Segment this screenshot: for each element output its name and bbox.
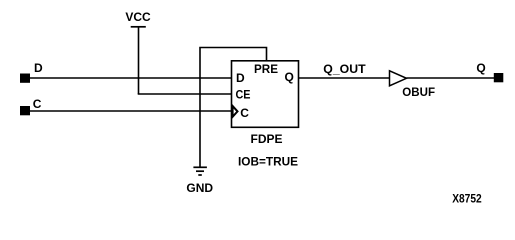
svg-text:C: C xyxy=(240,106,249,120)
wire VCC to CE pin xyxy=(138,93,232,95)
svg-text:D: D xyxy=(236,71,245,85)
svg-text:CE: CE xyxy=(236,87,251,101)
svg-text:VCC: VCC xyxy=(125,10,151,24)
wire OBUF to Q pad xyxy=(407,77,495,79)
svg-text:D: D xyxy=(34,61,43,75)
svg-text:GND: GND xyxy=(186,181,213,195)
svg-text:Q_OUT: Q_OUT xyxy=(323,62,366,76)
svg-text:Q: Q xyxy=(285,70,294,84)
clock pin triangle xyxy=(233,106,238,117)
pad C xyxy=(20,106,30,115)
flip-flop FDPE body xyxy=(232,61,299,128)
wire C pad to C pin xyxy=(30,110,232,112)
svg-text:PRE: PRE xyxy=(254,62,278,76)
wire D pad to D pin xyxy=(30,77,232,79)
wire PRE pin to ground xyxy=(200,48,267,168)
ground xyxy=(186,167,213,195)
svg-text:Q: Q xyxy=(476,61,485,75)
power symbol VCC xyxy=(125,10,151,27)
svg-text:X8752: X8752 xyxy=(452,191,482,205)
pad Q xyxy=(494,73,504,82)
wire VCC vertical drop xyxy=(138,27,140,94)
svg-text:OBUF: OBUF xyxy=(402,85,435,99)
pad D xyxy=(20,74,30,83)
svg-text:C: C xyxy=(33,97,42,111)
wire Q pin to OBUF xyxy=(299,77,390,79)
buffer OBUF xyxy=(390,71,407,86)
svg-text:IOB=TRUE: IOB=TRUE xyxy=(238,155,298,169)
svg-text:FDPE: FDPE xyxy=(251,132,283,146)
